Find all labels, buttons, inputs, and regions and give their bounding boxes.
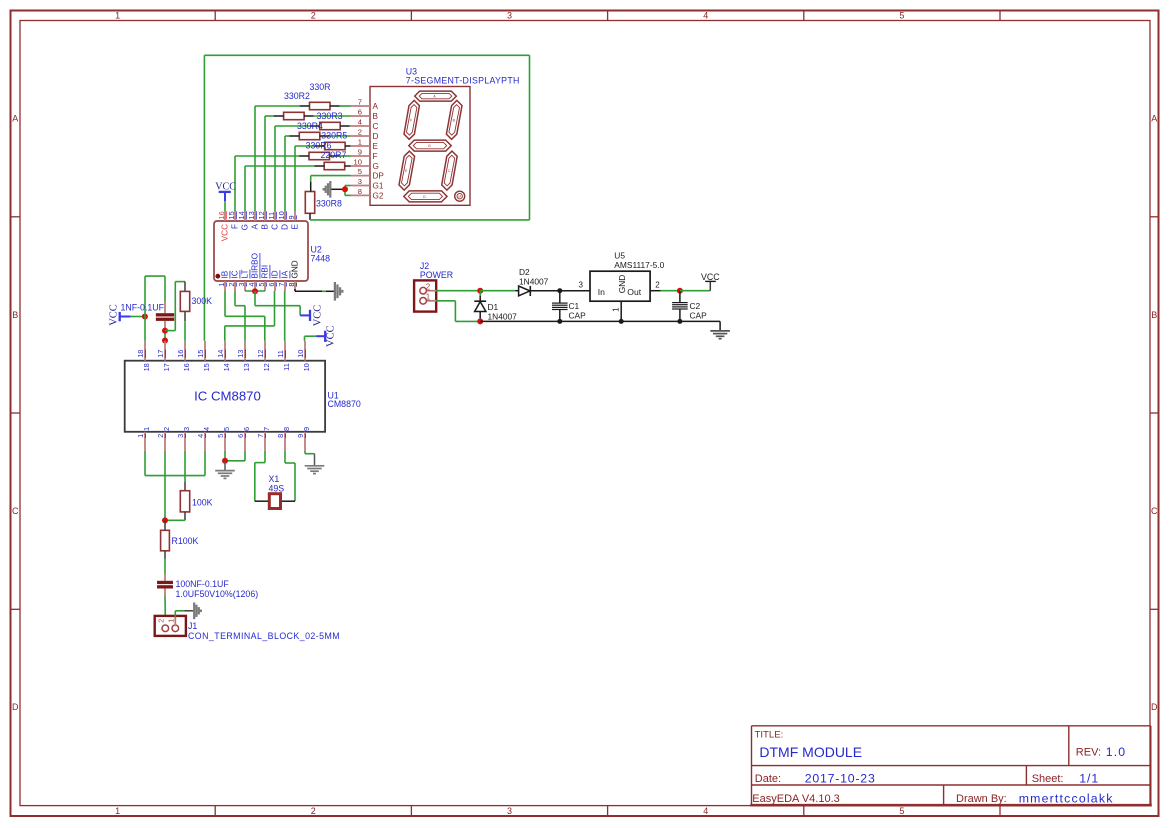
junction C1 bottom	[557, 319, 562, 324]
svg-text:12: 12	[256, 350, 265, 358]
svg-text:C: C	[373, 122, 379, 131]
wire J2 pin2	[431, 290, 481, 292]
svg-text:CON_TERMINAL_BLOCK_02-5MM: CON_TERMINAL_BLOCK_02-5MM	[188, 631, 340, 641]
wire U2 pin8 to ground	[295, 289, 335, 291]
svg-text:CAP: CAP	[569, 311, 587, 321]
connector J1	[155, 616, 340, 641]
resistor 220R7	[321, 150, 347, 170]
svg-text:10: 10	[296, 350, 305, 358]
svg-text:7: 7	[262, 427, 271, 431]
svg-text:7: 7	[277, 283, 286, 287]
ground under U1 pin9	[305, 466, 325, 474]
svg-text:300K: 300K	[192, 296, 213, 306]
svg-text:CM8870: CM8870	[328, 399, 361, 409]
svg-text:3: 3	[507, 11, 512, 21]
junction pin5 gnd	[222, 458, 228, 464]
svg-text:VCC: VCC	[326, 325, 337, 347]
svg-text:220R7: 220R7	[321, 150, 347, 160]
svg-text:C: C	[271, 224, 280, 230]
display segment C	[442, 151, 458, 190]
junction C2 top	[677, 288, 683, 294]
wire U2p1-U1p12	[225, 291, 265, 341]
display segment D	[404, 191, 447, 202]
VCC flag at regulator output	[701, 272, 720, 282]
wire J1 pin1 to ground	[175, 611, 193, 627]
junction 1NF-300K	[162, 328, 168, 334]
regulator U5 AMS1117-5.0	[579, 251, 665, 312]
U2 bottom pins 1-8	[217, 253, 300, 291]
wire net 330R3 row C	[275, 126, 351, 211]
svg-text:18: 18	[136, 350, 145, 358]
svg-text:4: 4	[247, 283, 256, 287]
junction at U1 pin17	[162, 338, 168, 344]
svg-text:14: 14	[237, 211, 246, 219]
svg-text:DP: DP	[373, 172, 385, 181]
wire out to VCC	[680, 281, 710, 290]
junction D1 bottom	[477, 318, 483, 324]
svg-text:RBI: RBI	[261, 265, 270, 279]
wire U5 pin1	[620, 301, 622, 321]
svg-text:13: 13	[247, 211, 256, 219]
svg-text:2: 2	[156, 434, 165, 438]
svg-text:GND: GND	[291, 260, 300, 278]
svg-text:3: 3	[579, 281, 584, 290]
junction pin2-100K	[162, 517, 168, 523]
svg-text:11: 11	[276, 350, 285, 358]
svg-text:VCC: VCC	[312, 305, 323, 327]
svg-text:1: 1	[115, 806, 120, 816]
svg-text:1: 1	[217, 283, 226, 287]
svg-text:BIRBO: BIRBO	[251, 253, 260, 278]
svg-text:1: 1	[115, 11, 120, 21]
svg-text:IC CM8870: IC CM8870	[194, 389, 261, 404]
junction D1 top	[477, 288, 483, 294]
svg-text:1: 1	[142, 427, 151, 431]
svg-text:Sheet:: Sheet:	[1032, 773, 1064, 785]
svg-text:Drawn By:: Drawn By:	[956, 793, 1007, 805]
svg-text:A: A	[373, 102, 379, 111]
svg-text:2: 2	[311, 11, 316, 21]
wire U1 pin3 to 100K	[184, 451, 186, 491]
wire net 330R6 row F	[235, 156, 351, 211]
svg-text:In: In	[598, 287, 605, 297]
svg-text:11: 11	[267, 212, 276, 220]
wire G1 G2 net	[330, 186, 350, 196]
svg-text:D1: D1	[488, 302, 499, 312]
wire net 330R4 row D	[285, 136, 351, 211]
svg-text:1: 1	[611, 307, 620, 312]
crystal X1 49S	[269, 474, 285, 509]
svg-text:5: 5	[257, 283, 266, 287]
svg-text:15: 15	[196, 350, 205, 358]
svg-text:330R5: 330R5	[321, 131, 347, 141]
svg-text:8: 8	[276, 434, 285, 438]
svg-text:2: 2	[227, 283, 236, 287]
svg-text:A: A	[1151, 114, 1157, 124]
svg-text:GND: GND	[617, 275, 627, 294]
U2 top pins 16-9	[217, 211, 300, 241]
resistor 330R5	[321, 131, 347, 150]
svg-text:7448: 7448	[311, 254, 331, 264]
svg-text:A: A	[12, 114, 18, 124]
wire DP net	[311, 176, 351, 192]
svg-text:3: 3	[507, 806, 512, 816]
svg-text:4: 4	[703, 11, 708, 21]
svg-text:VCC: VCC	[221, 224, 230, 241]
display segment B	[446, 100, 462, 139]
ground right of C2	[710, 331, 730, 339]
svg-text:10: 10	[277, 211, 286, 219]
capacitor 100NF-0.1UF	[157, 579, 258, 599]
svg-text:G: G	[428, 144, 431, 148]
svg-text:100K: 100K	[192, 497, 213, 507]
capacitor 1NF-0.1UF	[121, 302, 175, 321]
svg-text:5: 5	[216, 434, 225, 438]
svg-text:4: 4	[196, 434, 205, 438]
svg-text:1NF-0.1UF: 1NF-0.1UF	[121, 302, 165, 312]
svg-text:TITLE:: TITLE:	[755, 730, 784, 741]
wire to D2	[480, 290, 518, 292]
wire U1 pin2 down	[164, 451, 166, 520]
svg-text:G2: G2	[373, 191, 384, 200]
svg-text:E: E	[291, 223, 300, 229]
svg-text:POWER: POWER	[420, 270, 453, 280]
wire D2 to U5	[530, 290, 590, 292]
resistor 330R6	[306, 140, 332, 159]
wire VCC to U1 pin18	[145, 276, 165, 341]
wire U1p10 to VCC	[305, 336, 317, 341]
wire R100K to 100NF	[164, 551, 166, 581]
wire net 220R7 row G	[245, 166, 351, 211]
display segment DP	[455, 191, 465, 201]
resistor 330R8	[305, 192, 342, 214]
svg-text:R100K: R100K	[172, 536, 199, 546]
wire U5 out	[650, 290, 680, 292]
wire U2p2-U1p13	[235, 291, 245, 341]
junction G1G2	[342, 186, 348, 192]
svg-text:mmerttccolakk: mmerttccolakk	[1019, 792, 1114, 806]
wire J2 pin1 rail	[431, 301, 481, 322]
U1 top pins 18-10	[136, 341, 311, 372]
svg-text:B: B	[373, 112, 379, 121]
svg-text:1: 1	[136, 434, 145, 438]
svg-text:9: 9	[287, 215, 296, 219]
wire 100NF to J1	[164, 589, 166, 627]
wire U2p6-U1p14	[225, 291, 275, 341]
svg-text:5: 5	[899, 11, 904, 21]
svg-text:E: E	[373, 142, 379, 151]
svg-text:16: 16	[182, 363, 191, 371]
title block	[750, 726, 1152, 806]
wire 1NF bottom	[164, 321, 166, 341]
connector J2	[414, 261, 453, 312]
svg-text:13: 13	[236, 350, 245, 358]
wire net 330R5 row E	[295, 146, 351, 211]
junction C1 top	[557, 288, 562, 293]
wire U1 pin8 to X1	[281, 451, 295, 501]
wire net 330R2 row B	[265, 116, 351, 211]
svg-text:A: A	[251, 223, 260, 229]
svg-text:VCC: VCC	[701, 272, 720, 282]
svg-text:2: 2	[311, 806, 316, 816]
svg-text:10: 10	[302, 363, 311, 371]
svg-text:D: D	[12, 702, 19, 712]
svg-text:CAP: CAP	[690, 311, 708, 321]
VCC flag near U1 pin10	[316, 325, 336, 347]
svg-text:F: F	[410, 118, 412, 122]
svg-text:G1: G1	[373, 182, 384, 191]
svg-text:D: D	[373, 132, 379, 141]
svg-text:330R8: 330R8	[316, 199, 342, 209]
wire U1 pins5-6 tie	[225, 451, 245, 461]
wire U1 pin9 gnd	[305, 451, 315, 466]
svg-text:IA: IA	[281, 270, 290, 278]
wire 300K to U1 pin16	[184, 311, 186, 341]
svg-text:4: 4	[202, 427, 211, 431]
wire U2p7-U1p11	[284, 291, 286, 341]
resistor 330R3	[317, 111, 343, 130]
svg-text:11: 11	[282, 363, 291, 371]
display segment E	[399, 151, 415, 190]
svg-text:3: 3	[182, 427, 191, 431]
IC U1 CM8870 body	[125, 361, 361, 432]
svg-text:1: 1	[426, 293, 431, 302]
svg-text:100NF-0.1UF: 100NF-0.1UF	[176, 579, 230, 589]
svg-text:Date:: Date:	[755, 773, 781, 785]
wire U2 pins3-5 tie	[245, 290, 265, 292]
svg-text:1N4007: 1N4007	[488, 311, 518, 321]
junction C2 bottom	[677, 319, 682, 324]
ground near 330R8	[324, 181, 331, 198]
svg-text:330R: 330R	[310, 82, 331, 92]
svg-text:D: D	[281, 224, 290, 230]
svg-text:1/1: 1/1	[1079, 772, 1099, 786]
svg-text:5: 5	[222, 427, 231, 431]
svg-text:14: 14	[216, 350, 225, 358]
svg-text:AMS1117-5.0: AMS1117-5.0	[614, 260, 664, 270]
svg-text:B: B	[12, 310, 18, 320]
svg-text:16: 16	[217, 211, 226, 219]
svg-text:IB: IB	[221, 270, 230, 278]
svg-text:2: 2	[426, 282, 431, 291]
resistor 330R2	[284, 91, 310, 120]
wire U1 pin7 to X1	[255, 451, 269, 501]
svg-text:16: 16	[176, 350, 185, 358]
svg-text:F: F	[231, 224, 240, 229]
resistor 300K	[180, 291, 212, 311]
wire net 330R row A	[255, 106, 351, 211]
svg-text:7-SEGMENT-DISPLAYPTH: 7-SEGMENT-DISPLAYPTH	[406, 76, 520, 86]
svg-text:LT: LT	[241, 270, 250, 279]
svg-text:IC: IC	[231, 270, 240, 278]
svg-text:2: 2	[156, 619, 165, 623]
svg-text:8: 8	[287, 283, 296, 287]
display segment G	[409, 140, 451, 151]
svg-text:2017-10-23: 2017-10-23	[805, 772, 876, 786]
svg-text:REV:: REV:	[1076, 747, 1101, 759]
ground at U2 pin8	[335, 282, 342, 301]
diode D1 1N4007	[474, 291, 517, 322]
svg-text:VCC: VCC	[109, 304, 120, 326]
svg-text:C: C	[1151, 506, 1158, 516]
wire LT-BI-RBI to VCC	[255, 291, 300, 315]
junction VCC-pin18	[142, 314, 148, 320]
svg-text:18: 18	[142, 363, 151, 371]
svg-text:C2: C2	[690, 301, 701, 311]
svg-text:9: 9	[302, 427, 311, 431]
VCC flag right of U2	[300, 305, 323, 327]
svg-text:330R3: 330R3	[317, 111, 343, 121]
svg-text:B: B	[261, 223, 270, 229]
svg-text:Out: Out	[627, 287, 641, 297]
diode D2 1N4007	[519, 267, 549, 296]
resistor 330R4	[297, 121, 323, 140]
resistor 330R	[310, 82, 331, 110]
svg-text:49S: 49S	[269, 483, 285, 493]
svg-text:330R6: 330R6	[306, 140, 332, 150]
svg-text:15: 15	[227, 211, 236, 219]
svg-text:EasyEDA V4.10.3: EasyEDA V4.10.3	[752, 793, 839, 805]
wire 330R8 bottom loop	[204, 55, 529, 341]
wire 100K bottom	[165, 512, 185, 520]
svg-text:1.0UF50V10%(1206): 1.0UF50V10%(1206)	[176, 589, 259, 599]
svg-text:330R2: 330R2	[284, 91, 310, 101]
svg-text:2: 2	[655, 281, 660, 290]
ground at J1	[194, 602, 201, 619]
resistor 100K	[180, 491, 212, 512]
svg-text:3: 3	[237, 283, 246, 287]
junction U2 pin4	[252, 288, 258, 294]
capacitor C1 CAP	[552, 291, 586, 322]
svg-text:4: 4	[703, 806, 708, 816]
svg-text:C1: C1	[569, 301, 580, 311]
svg-text:330R4: 330R4	[297, 121, 323, 131]
resistor R100K	[161, 520, 199, 550]
wire U1 pins1-4	[145, 451, 205, 476]
svg-text:2: 2	[162, 427, 171, 431]
op-amp U2 7448 body	[214, 221, 330, 281]
svg-text:5: 5	[899, 806, 904, 816]
svg-text:1N4007: 1N4007	[519, 277, 549, 287]
svg-text:6: 6	[236, 434, 245, 438]
svg-text:6: 6	[242, 427, 251, 431]
svg-text:F: F	[373, 152, 378, 161]
U3 pin stubs	[351, 106, 371, 195]
svg-text:DTMF MODULE: DTMF MODULE	[759, 744, 862, 760]
svg-text:12: 12	[262, 363, 271, 371]
VCC flag at U2 pin16	[215, 182, 236, 212]
svg-text:G: G	[373, 162, 379, 171]
svg-text:D2: D2	[519, 267, 530, 277]
svg-text:7: 7	[256, 434, 265, 438]
ground rail	[480, 321, 720, 331]
svg-text:9: 9	[296, 434, 305, 438]
VCC flag left	[109, 304, 145, 326]
junction U5 pin1 rail	[619, 319, 624, 324]
svg-text:D: D	[1151, 702, 1158, 712]
svg-text:17: 17	[156, 350, 165, 358]
svg-text:8: 8	[282, 427, 291, 431]
U1 bottom pins 1-9	[136, 427, 311, 451]
svg-text:12: 12	[257, 211, 266, 219]
ground under U1 pin5	[215, 461, 235, 479]
display segment A	[415, 91, 457, 101]
display segment F	[404, 100, 419, 139]
svg-text:ID: ID	[271, 270, 280, 278]
svg-text:C: C	[12, 506, 19, 516]
svg-text:13: 13	[242, 363, 251, 371]
svg-text:G: G	[241, 224, 250, 230]
svg-text:6: 6	[267, 283, 276, 287]
svg-text:14: 14	[222, 363, 231, 371]
capacitor C2 CAP	[672, 291, 707, 322]
svg-text:15: 15	[202, 363, 211, 371]
svg-text:J1: J1	[188, 621, 197, 631]
svg-text:1: 1	[166, 619, 175, 623]
wire to 300K	[165, 282, 185, 331]
svg-text:1.0: 1.0	[1106, 745, 1126, 759]
svg-text:DP: DP	[458, 195, 462, 198]
7-segment display U3	[354, 67, 520, 206]
svg-text:17: 17	[162, 363, 171, 371]
svg-text:3: 3	[176, 434, 185, 438]
svg-text:B: B	[1151, 310, 1157, 320]
